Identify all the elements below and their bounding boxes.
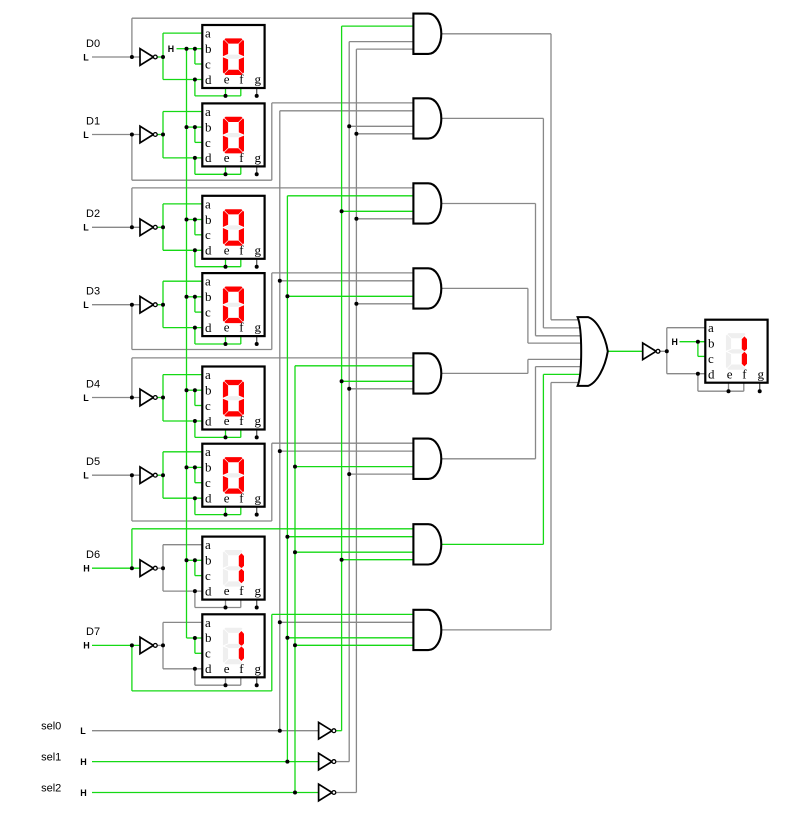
svg-text:a: a xyxy=(205,274,211,289)
svg-text:g: g xyxy=(255,661,262,676)
svg-text:g: g xyxy=(255,320,262,335)
svg-text:D1: D1 xyxy=(86,115,100,127)
svg-text:d: d xyxy=(205,413,212,428)
svg-text:a: a xyxy=(205,537,211,552)
svg-text:e: e xyxy=(224,490,230,505)
svg-text:b: b xyxy=(205,630,212,645)
svg-text:a: a xyxy=(205,196,211,211)
svg-text:c: c xyxy=(205,398,211,413)
svg-text:f: f xyxy=(239,583,244,598)
svg-text:f: f xyxy=(239,413,244,428)
svg-text:d: d xyxy=(205,72,212,87)
svg-text:c: c xyxy=(205,568,211,583)
svg-text:e: e xyxy=(727,366,733,381)
svg-text:b: b xyxy=(205,382,212,397)
svg-text:sel2: sel2 xyxy=(41,782,61,794)
svg-text:H: H xyxy=(80,788,87,798)
svg-text:H: H xyxy=(672,337,678,347)
svg-text:H: H xyxy=(83,564,90,574)
svg-text:c: c xyxy=(205,56,211,71)
svg-text:a: a xyxy=(205,104,211,119)
svg-text:e: e xyxy=(224,320,230,335)
svg-text:c: c xyxy=(205,475,211,490)
svg-text:d: d xyxy=(205,491,212,506)
svg-text:f: f xyxy=(239,242,244,257)
svg-text:a: a xyxy=(205,26,211,41)
svg-text:L: L xyxy=(83,471,89,481)
svg-text:f: f xyxy=(742,366,747,381)
svg-text:c: c xyxy=(205,135,211,150)
svg-text:f: f xyxy=(239,661,244,676)
svg-text:a: a xyxy=(205,444,211,459)
svg-text:L: L xyxy=(83,300,89,310)
svg-text:d: d xyxy=(205,584,212,599)
svg-text:g: g xyxy=(255,490,262,505)
svg-text:c: c xyxy=(205,646,211,661)
svg-text:D3: D3 xyxy=(86,286,100,298)
svg-text:g: g xyxy=(255,413,262,428)
svg-text:sel0: sel0 xyxy=(41,721,61,733)
svg-text:g: g xyxy=(255,72,262,87)
svg-text:c: c xyxy=(205,305,211,320)
svg-text:b: b xyxy=(205,41,212,56)
svg-text:c: c xyxy=(708,351,714,366)
svg-text:H: H xyxy=(80,757,87,767)
svg-text:c: c xyxy=(205,227,211,242)
svg-text:D2: D2 xyxy=(86,208,100,220)
svg-text:d: d xyxy=(205,150,212,165)
svg-text:L: L xyxy=(83,130,89,140)
svg-text:e: e xyxy=(224,72,230,87)
svg-text:e: e xyxy=(224,150,230,165)
svg-text:a: a xyxy=(205,615,211,630)
svg-text:b: b xyxy=(708,336,715,351)
svg-text:d: d xyxy=(708,367,715,382)
svg-text:f: f xyxy=(239,150,244,165)
svg-text:D4: D4 xyxy=(86,378,100,390)
svg-text:a: a xyxy=(205,367,211,382)
svg-text:g: g xyxy=(255,583,262,598)
svg-text:g: g xyxy=(255,242,262,257)
svg-text:b: b xyxy=(205,212,212,227)
svg-text:H: H xyxy=(83,641,90,651)
svg-text:b: b xyxy=(205,289,212,304)
svg-text:D7: D7 xyxy=(86,626,100,638)
svg-text:e: e xyxy=(224,661,230,676)
svg-text:d: d xyxy=(205,661,212,676)
svg-text:g: g xyxy=(758,366,765,381)
svg-text:g: g xyxy=(255,150,262,165)
svg-text:L: L xyxy=(83,393,89,403)
svg-text:sel1: sel1 xyxy=(41,751,61,763)
svg-text:b: b xyxy=(205,460,212,475)
svg-text:D6: D6 xyxy=(86,549,100,561)
svg-text:e: e xyxy=(224,242,230,257)
svg-text:f: f xyxy=(239,320,244,335)
svg-text:H: H xyxy=(168,44,174,54)
svg-text:d: d xyxy=(205,320,212,335)
svg-text:L: L xyxy=(80,726,86,736)
svg-text:b: b xyxy=(205,119,212,134)
svg-text:d: d xyxy=(205,243,212,258)
svg-text:f: f xyxy=(239,72,244,87)
svg-text:D5: D5 xyxy=(86,456,100,468)
svg-text:a: a xyxy=(708,320,714,335)
svg-text:f: f xyxy=(239,490,244,505)
svg-text:e: e xyxy=(224,583,230,598)
svg-text:D0: D0 xyxy=(86,38,100,50)
svg-text:L: L xyxy=(83,223,89,233)
svg-text:L: L xyxy=(83,52,89,62)
svg-text:b: b xyxy=(205,553,212,568)
svg-text:e: e xyxy=(224,413,230,428)
